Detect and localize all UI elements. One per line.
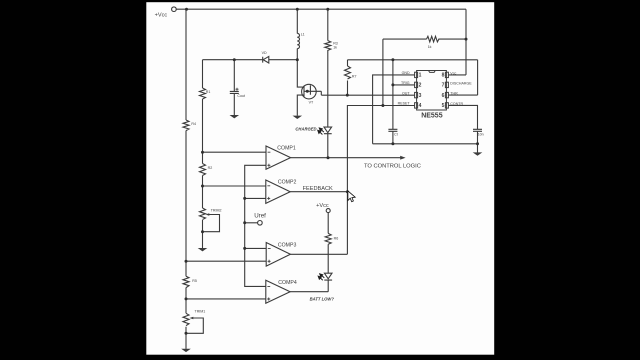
svg-text:R7: R7 [352,75,357,79]
svg-text:1k: 1k [428,45,432,49]
svg-text:TO CONTROL LOGIC: TO CONTROL LOGIC [364,164,421,170]
terminal +Vcc top-left [172,7,177,12]
ground under Cout [230,115,240,118]
svg-text:FEEDBACK: FEEDBACK [303,186,333,192]
LED charged indicator [324,127,332,158]
svg-text:4: 4 [419,103,422,109]
wire CONTR pin 5 to 10n [448,105,477,143]
node TRIG tap [391,83,394,86]
node LED on COMP1 output [327,156,330,159]
svg-text:GND: GND [402,71,410,75]
resistor R5 [183,276,189,287]
IC U1 NE555 body [417,71,447,111]
svg-text:R1: R1 [206,90,211,94]
LED charged emission arrow 1 [321,130,324,133]
op-amp COMP4 [266,280,290,303]
node Uref terminal tap [243,221,246,224]
svg-text:BATT LOW?: BATT LOW? [310,297,335,302]
wire COMP3 output [290,253,347,255]
wire TRIG pin 2 and Ct leads [393,60,415,144]
op-amp COMP2 [266,180,290,203]
resistor R2 [200,164,206,176]
node Cout on output [233,58,236,61]
pin 3 box [415,92,418,97]
node R2 TRIM2 tap [201,185,204,188]
wire 555 timing node horizontal [348,59,478,61]
svg-text:DISCHARGE: DISCHARGE [450,81,472,85]
node timing to TRIG branch [391,58,394,61]
pin 6 box [445,92,448,97]
wire COMP3 noninverting input [186,260,266,262]
svg-text:R4: R4 [191,122,196,126]
wire COMP1 output to control logic [291,157,401,159]
svg-text:THR: THR [450,92,458,96]
wire COMP2 noninverting input [245,197,266,199]
svg-text:RESET: RESET [398,102,411,106]
wire 555 ground rail [373,144,478,153]
svg-text:VD: VD [262,51,267,55]
wire THR pin 6 [448,60,477,95]
node R4 R5 tap [185,260,188,263]
wire Uref net vertical with COMP1 and COMP4 noninverting taps [245,165,266,286]
svg-text:1: 1 [419,73,422,79]
pin 5 box [445,103,448,108]
resistor R6 [325,233,331,244]
IC U1 orientation notch [429,71,436,73]
node Uref to COMP3 minus [243,247,246,250]
pin 1 box [415,72,418,77]
wire LED to COMP4 output [290,291,328,293]
capacitor 10n [473,129,482,131]
ground under TRIM2 [198,248,208,251]
wire R3 branch top [327,9,329,40]
terminal +Vcc mid [326,209,330,213]
arrowhead to control logic [400,156,405,160]
svg-text:CONTR: CONTR [450,102,463,106]
wire COMP3 inverting input [245,247,267,249]
wire VT drain and source leads [297,60,304,116]
COMP4 input polarity marks [267,286,270,300]
trimmer TRIM2 [200,208,206,220]
inductor L1 [297,33,299,48]
node L1 diode drain [296,58,299,61]
pin 4 box [415,103,418,108]
LED batt-low emission arrow 2 [320,278,323,281]
COMP1 input polarity marks [267,152,270,167]
svg-text:5: 5 [442,103,445,109]
svg-text:COMP4: COMP4 [278,280,297,286]
LED batt-low indicator [324,273,332,292]
LED charged emission arrow 2 [320,132,323,135]
node RESET pull-up [381,104,384,107]
wire RESET net [347,106,414,255]
wire TRIM1 wiper bracket [186,318,203,333]
svg-text:COMP2: COMP2 [278,179,297,185]
LED batt-low emission arrow 1 [322,275,325,278]
svg-text:7: 7 [442,83,445,89]
wire left +Vcc divider rail [185,9,187,349]
wire R3 to LED [327,50,329,127]
svg-text:Cout: Cout [237,94,245,98]
wire reset pull-up leads [383,39,466,105]
wire 555 OUT net gate to pin 3 [321,94,414,96]
capacitor Cout [230,60,239,115]
svg-text:OUT: OUT [402,91,410,95]
wire GND pin 1 [373,75,415,144]
node R5 TRIM1 tap [185,297,188,300]
svg-text:VT: VT [309,101,314,105]
svg-text:+Vcc: +Vcc [155,13,168,19]
svg-text:TRIM2: TRIM2 [211,209,222,213]
wire R1 divider branch [202,60,204,248]
wire Uref terminal stub [245,222,258,224]
mouse cursor [348,191,355,202]
svg-text:3: 3 [419,93,422,99]
node top rail to divider [185,8,188,11]
ground under VT source [293,116,303,119]
ground 555 rail [473,152,483,155]
wire top +Vcc rail [176,8,466,10]
transistor VT internal bars and gate [304,85,321,97]
resistor R7 [345,66,351,79]
svg-text:R5: R5 [192,279,197,283]
node R1 R2 divider tap [201,151,204,154]
COMP2 input polarity marks [267,186,270,200]
pin 7 box [445,82,448,87]
svg-text:Vcc: Vcc [450,72,456,76]
wire R7 leads [347,60,349,95]
svg-text:R2: R2 [208,166,213,170]
trimmer TRIM2 wiper arrowhead [205,213,209,216]
wire COMP4 noninverting input [186,298,266,300]
node Uref to COMP2 plus [243,197,246,200]
node Ct on ground rail [391,142,394,145]
ground under TRIM1 [181,349,191,352]
capacitor Ct [388,129,397,131]
svg-text:TRIM1: TRIM1 [195,309,206,313]
diode VD [263,56,269,63]
svg-text:2: 2 [419,83,422,89]
svg-text:NE555: NE555 [421,113,443,120]
pin 2 box [415,82,418,87]
node VT source arrow dot [306,90,309,93]
trimmer TRIM1 wiper arrowhead [189,317,193,320]
wire inductor leads [296,9,298,60]
svg-text:+Vcc: +Vcc [316,203,329,209]
svg-text:R3: R3 [333,41,338,45]
wire COMP1 inverting input [203,151,267,153]
COMP3 input polarity marks [268,248,271,262]
pin 8 box [445,72,448,77]
wire output node [203,59,298,61]
svg-text:6: 6 [442,93,445,99]
node R7 to OUT [346,94,349,97]
trimmer TRIM1 [183,313,189,325]
wire COMP2 output feedback [290,191,347,193]
resistor R1 [200,88,206,99]
op-amp COMP3 [266,243,290,267]
svg-text:CHARGED: CHARGED [295,127,316,132]
op-amp COMP1 [266,146,291,169]
resistor 1k pull-up [427,36,439,42]
wire Vcc drop to pin 8 [448,9,466,75]
svg-text:COMP3: COMP3 [278,242,297,248]
capacitor Cout plus mark [236,88,239,91]
svg-text:10n: 10n [478,132,484,136]
svg-text:8: 8 [442,73,445,79]
resistor R3 [325,41,331,51]
wire TRIM2 wiper bracket [203,215,220,232]
svg-text:COMP1: COMP1 [277,145,296,151]
svg-text:R6: R6 [334,236,339,240]
node top rail to R3 [326,8,329,11]
wire COMP2 inverting input [203,185,266,187]
terminal Uref [258,221,263,226]
node TRIM1 bottom [185,332,188,335]
svg-text:Uref: Uref [254,212,266,219]
node top rail to L1 [296,8,299,11]
node 10n on ground rail [476,142,479,145]
node TRIM2 bottom [201,230,204,233]
node pull-up to Vcc drop [465,38,468,41]
transistor VT MOSFET body [302,84,317,99]
node feedback junction [346,190,349,193]
wire R6 branch leads [327,213,329,274]
svg-text:L1: L1 [301,32,305,36]
resistor R4 [183,120,189,131]
svg-text:Ct: Ct [394,132,398,136]
svg-text:TRIG: TRIG [401,81,410,85]
svg-text:1k: 1k [333,46,337,50]
